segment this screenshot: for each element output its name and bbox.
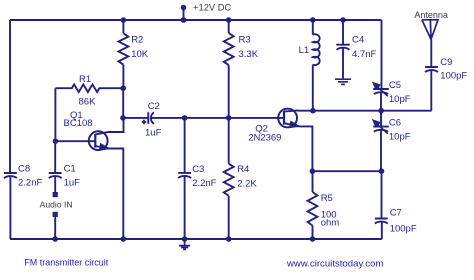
wire +12V supply stub [183,8,185,21]
svg-text:R4: R4 [237,164,249,175]
transistor Q1 emitter arrow [99,144,109,150]
wire L1 branch top [312,20,314,35]
ground symbol below C4 [335,79,351,84]
svg-text:2N2369: 2N2369 [248,133,281,144]
svg-text:C5: C5 [389,80,401,91]
svg-text:R2: R2 [131,35,143,46]
wire left rail upper to C8 [9,20,11,172]
node ground rail R4 junction [226,236,232,242]
svg-text:C7: C7 [390,208,402,219]
svg-text:R5: R5 [321,193,333,204]
resistor R3 [224,33,234,65]
capacitor C1 branch wire upper [54,141,56,172]
wire Q1 base [55,140,95,142]
svg-text:86K: 86K [79,97,97,108]
wire left rail lower from C8 to ground rail [9,176,11,239]
wire C6 to emitter line [380,131,382,172]
ground symbol below rail [179,239,190,249]
wire R3 branch top [228,20,230,33]
wire C2 to Q2 base signal line [151,117,284,119]
wire R2 branch top [122,20,124,33]
svg-text:FM transmitter circuit: FM transmitter circuit [24,258,109,268]
capacitor C5 arrow [377,87,388,97]
audio terminal square lower [53,212,58,217]
capacitor C2 plus sign [142,120,147,125]
svg-text:C2: C2 [148,101,160,112]
transistor Q1 emitter path [95,146,123,239]
wire junction to C6 [380,111,382,126]
resistor R5 wire top [312,171,314,192]
svg-text:10K: 10K [131,49,149,60]
capacitor C2 plates [148,112,154,124]
wire tank output line [313,110,432,112]
svg-text:R3: R3 [239,35,251,46]
svg-text:BC108: BC108 [64,118,93,129]
wire antenna to C9 [430,39,432,66]
node R2 top rail junction [121,17,127,23]
node C4 top rail junction [340,17,346,23]
svg-text:C1: C1 [64,164,76,175]
node Q1 base junction [53,138,59,144]
wire C4 branch top [342,20,344,44]
capacitor C1 plates [49,173,62,178]
transistor Q1 circle [89,131,108,150]
svg-text:C4: C4 [352,35,364,46]
wire right rail down to C5 [381,20,383,89]
wire R2 bottom to R1 junction [122,65,124,89]
wire emitter line horizontal [312,170,381,172]
capacitor C6 plates [373,127,389,132]
svg-text:www.circuitstoday.com: www.circuitstoday.com [286,259,383,270]
svg-text:1uF: 1uF [145,128,162,139]
wire C3 to ground rail [184,176,186,239]
capacitor C8 plates [4,173,17,178]
transistor Q2 circle [278,109,297,128]
svg-text:R1: R1 [79,74,91,85]
node ground rail Q1 emitter junction [121,236,127,242]
node C6 C7 junction [379,168,385,174]
node Q2 collector junction [310,108,316,114]
wire C1 to audio terminal [54,176,56,192]
svg-text:C8: C8 [18,164,30,175]
inductor L1 [313,34,320,65]
wire top +12V rail [10,19,382,21]
resistor R1 [55,84,123,92]
resistor R2 [119,33,129,64]
resistor R4 [224,164,234,196]
node +12V terminal dot [181,5,187,11]
svg-text:C9: C9 [440,57,452,68]
capacitor C3 plates [178,173,191,178]
svg-text:C3: C3 [192,164,204,175]
svg-text:1uF: 1uF [64,178,81,189]
svg-text:10pF: 10pF [389,132,411,143]
wire R1 left leg down to Q1 base node [54,88,56,141]
svg-text:C6: C6 [389,118,401,129]
wire C7 to ground rail end [381,222,383,239]
svg-text:+12V DC: +12V DC [193,2,232,13]
audio terminal square upper [53,192,58,197]
transistor Q1 base bar [94,134,96,148]
capacitor C9 plates [425,67,438,72]
node Q1 collector junction [120,115,126,121]
wire C4 to ground symbol [342,48,344,79]
svg-text:100pF: 100pF [440,71,467,82]
wire signal line to R4 [228,118,230,164]
svg-text:2.2K: 2.2K [237,179,257,190]
svg-text:4.7nF: 4.7nF [352,49,376,60]
capacitor C3 branch wire upper [184,118,186,172]
resistor R5 [308,192,318,226]
svg-text:10pF: 10pF [389,94,411,105]
node R3 top rail junction [226,17,232,23]
capacitor C5 plates [373,89,389,94]
transistor Q1 collector path [95,118,123,134]
wire R5 bottom to ground rail [312,226,314,240]
node ground rail C1 junction [52,236,58,242]
wire C9 down to tank output line [430,70,432,111]
svg-text:Audio IN: Audio IN [40,199,73,209]
node R3 R4 signal junction [226,115,232,121]
node ground rail R5 junction [310,236,316,242]
wire bottom ground rail [10,238,382,240]
svg-text:ohm: ohm [321,217,340,228]
wire lower audio terminal to ground rail [54,217,56,239]
transistor Q2 emitter path [284,123,312,171]
capacitor C7 plates [375,219,388,224]
antenna symbol [422,20,438,40]
capacitor C4 plates [336,45,349,50]
wire C5 to junction [380,93,382,111]
transistor Q2 emitter arrow [290,121,300,127]
svg-text:L1: L1 [299,45,310,56]
transistor Q2 base bar [283,111,285,124]
svg-text:100pF: 100pF [390,224,417,235]
wire R1 junction to collector junction [122,88,124,118]
svg-text:2.2nF: 2.2nF [18,178,42,189]
svg-text:Antenna: Antenna [414,10,448,20]
capacitor C2 left wire [123,117,149,119]
transistor Q2 collector path [284,110,313,111]
svg-text:2.2nF: 2.2nF [192,178,216,189]
node L1 top rail junction [310,17,316,23]
node C3 signal junction [182,115,188,121]
wire R3 bottom to signal line [228,65,230,118]
node supply stub rail junction [181,17,187,23]
node ground rail C3 junction [182,236,188,242]
node R1 right junction [120,85,126,91]
wire C6 junction down to C7 [381,171,383,218]
svg-text:3.3K: 3.3K [239,49,259,60]
node emitter R5 junction [310,168,316,174]
wire L1 bottom to collector junction [312,65,314,111]
node C5 C6 junction [378,108,384,114]
capacitor C6 arrow [377,124,388,134]
wire R4 bottom to ground rail [228,196,230,239]
